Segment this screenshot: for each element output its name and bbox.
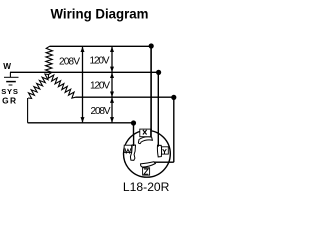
terminal label box Z (143, 168, 150, 175)
terminal label box X (140, 129, 151, 137)
node dot at wire C right end (131, 120, 136, 125)
slot Z (bottom arc) (141, 162, 156, 167)
svg-text:GR: GR (2, 95, 17, 105)
slot W (left vertical slot with bend) (130, 145, 135, 160)
wire phase B horizontal (76, 96, 174, 98)
wire phase B horizontal inside receptacle to Z slot (155, 161, 169, 163)
dimension line 208V lower right (111, 98, 113, 123)
wire phase A drop inside receptacle to X box (150, 129, 152, 137)
wire ground drop (9, 72, 11, 77)
dimension line 120V upper right (111, 47, 113, 72)
node dot at wire B right end (171, 95, 176, 100)
wire neutral drop inside receptacle to Y slot (157, 132, 159, 147)
terminal label box W (124, 145, 131, 152)
transformer winding T2 lower-left (phase Z) (28, 74, 49, 98)
wire neutral horizontal (10, 71, 159, 73)
wire phase A horizontal top (50, 45, 152, 47)
wire phase C horizontal bottom (28, 122, 134, 124)
svg-text:120V: 120V (90, 55, 110, 66)
slot Y (right vertical slot) (157, 145, 161, 157)
svg-text:208V: 208V (91, 106, 111, 117)
dimension line 120V middle right (111, 73, 113, 97)
svg-text:W: W (3, 62, 11, 71)
svg-text:208V: 208V (59, 56, 80, 67)
wire neutral vertical drop to Y terminal (157, 72, 159, 133)
svg-text:120V: 120V (90, 80, 110, 91)
terminal label box Y (162, 147, 169, 154)
receptacle body circle (123, 130, 170, 177)
wire phase A vertical drop to X terminal (150, 46, 152, 130)
ground symbol SYS GR (4, 76, 19, 78)
node dot at wire A right end (149, 43, 154, 48)
wire phase B horizontal into Z terminal (168, 161, 174, 163)
node dot at neutral right end (156, 70, 161, 75)
wire phase C drop inside receptacle to W slot (133, 134, 135, 146)
svg-text:Wiring Diagram: Wiring Diagram (51, 6, 149, 22)
dimension line 208V left (A to C) (82, 47, 84, 123)
wire phase C vertical from winding T2 end (27, 98, 29, 123)
svg-text:L18-20R: L18-20R (123, 182, 170, 194)
transformer winding T1 vertical (phase X) (46, 46, 53, 74)
wire phase C vertical drop to W terminal (133, 123, 135, 135)
wire phase B vertical drop (173, 97, 175, 162)
slot X (top arc with left hook) (138, 137, 152, 144)
transformer winding T3 lower-right (phase Y) (48, 75, 75, 99)
